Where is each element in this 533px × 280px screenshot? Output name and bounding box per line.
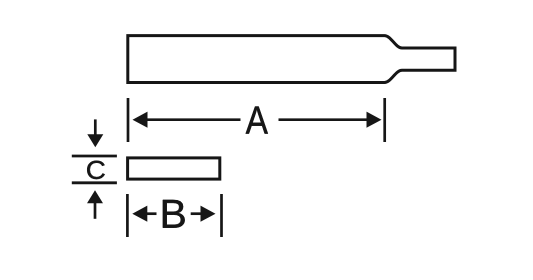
dimension A left arrowhead [133,112,148,128]
dimension A left extension line [127,98,130,142]
dimension B left shaft [146,212,157,215]
dimension B right shaft [191,212,201,215]
dimension B label [163,200,185,228]
dimension A right extension line [383,98,386,142]
dimension C down arrowhead [87,134,103,147]
dimension A right arrowhead [367,112,382,128]
dimension C bottom extension line [72,181,117,184]
file blank outline (body with tapered tang) [128,36,455,83]
dimension C top extension line [72,155,117,158]
dimension A left shaft [146,118,241,121]
dimension A label [246,107,268,134]
dimension B right extension line [220,194,223,237]
dimension B left arrowhead [132,206,147,222]
dimension B right arrowhead [201,206,216,222]
dimension B left extension line [126,194,129,237]
dimension C label [87,161,105,179]
dimension C down arrow shaft [94,119,97,135]
dimension C up arrowhead [87,190,103,203]
dimension A right shaft [279,118,368,121]
cross-section rectangle [128,158,220,179]
dimension C up arrow shaft [94,203,97,219]
